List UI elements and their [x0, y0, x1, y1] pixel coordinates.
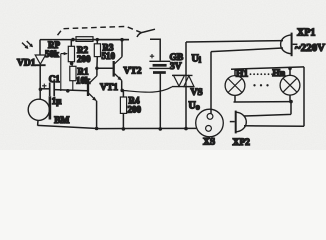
- plus sign of C1: [42, 84, 46, 88]
- resistor R3: [94, 40, 100, 69]
- wiper arrow of RP: [61, 52, 68, 91]
- wire top rail (3V+): [40, 39, 129, 41]
- node junction dot rail/RP top: [71, 38, 75, 42]
- triac VS: [172, 75, 194, 86]
- wire lamp top rail: [231, 67, 304, 69]
- lamp Hn: [280, 68, 300, 101]
- label middle ellipsis: [253, 84, 268, 86]
- microphone BM: [28, 96, 50, 120]
- wire C1 right plate to VT1 base: [54, 90, 87, 91]
- node R3 top rail dot: [96, 38, 99, 41]
- wire node A to C1 left plate: [40, 88, 49, 90]
- plug XP1: [281, 33, 298, 57]
- wire XP2 bottom prong to lamp top rail: [244, 67, 304, 126]
- battery GB: [149, 61, 170, 72]
- node RP bottom / R1 top junction dot: [70, 62, 74, 66]
- node A junction dot: [39, 88, 43, 92]
- wire VT2 collector up to rail: [121, 40, 123, 57]
- resistor R1: [70, 66, 76, 80]
- node battery ground dot: [159, 127, 163, 131]
- node VT2 emitter / R4 / gate junction dot: [120, 89, 124, 93]
- wire VT2 emitter down to R4 node: [121, 80, 123, 90]
- wire switch fixed contact to battery top: [150, 39, 160, 60]
- node VT2 collector rail dot: [120, 38, 124, 42]
- label dots between H1 and Hn: [250, 73, 273, 75]
- node C1/RP/R1 junction dot: [66, 89, 70, 93]
- plug XP2: [230, 111, 247, 134]
- wire mains live: XP1 top prong to triac anode: [186, 41, 283, 42]
- wire lamp bottom rail: [234, 101, 292, 103]
- transistor VT1: [88, 76, 97, 101]
- switch blade: [137, 29, 155, 37]
- wire XP2 top prong to lamp bottom rail: [244, 102, 291, 116]
- transistor VT2: [114, 57, 122, 81]
- wire VT2 base coupling: [97, 67, 113, 69]
- wire triac cathode down to ground rail: [185, 87, 187, 129]
- wire VT1 emitter down to ground: [96, 101, 98, 129]
- light arrows onto VD1: [22, 41, 33, 49]
- lamp H1: [225, 69, 245, 102]
- dashed enclosure outline: [58, 26, 145, 35]
- wire battery minus down to ground rail: [159, 74, 161, 129]
- node VT1 emitter ground dot: [95, 127, 99, 131]
- wire bottom ground rail: [38, 125, 197, 128]
- node lamp bottom-right dot: [289, 100, 293, 104]
- socket XS: [196, 109, 224, 137]
- wire VD1 cathode down to node A: [39, 65, 41, 100]
- node R4 ground dot: [122, 127, 126, 131]
- node triac cathode ground dot: [184, 127, 188, 131]
- wire RP bottom to R1: [71, 62, 72, 67]
- node lamp top-right dot: [288, 67, 292, 71]
- wire mains neutral: XP1 bottom prong to XS: [211, 48, 283, 52]
- capacitor C1: [50, 82, 55, 96]
- node VT1 collector / R3 / VT2 base dot: [95, 67, 98, 70]
- wire VT1 collector up to R3 node: [96, 68, 98, 76]
- resistor R2 (horizontal box in top rail): [76, 37, 93, 42]
- resistor R4: [120, 90, 126, 129]
- wire rail from R2 to R3 node: [93, 39, 129, 41]
- wire left drop to VD1: [39, 40, 41, 56]
- wire BM bottom to ground rail: [37, 120, 39, 125]
- wire R1 bottom lead: [72, 81, 74, 91]
- potentiometer RP (vertical box): [68, 40, 74, 62]
- plus sign of battery: [150, 54, 154, 58]
- wire gate of VS from R4 node: [122, 87, 172, 92]
- photodiode VD1: [35, 55, 45, 65]
